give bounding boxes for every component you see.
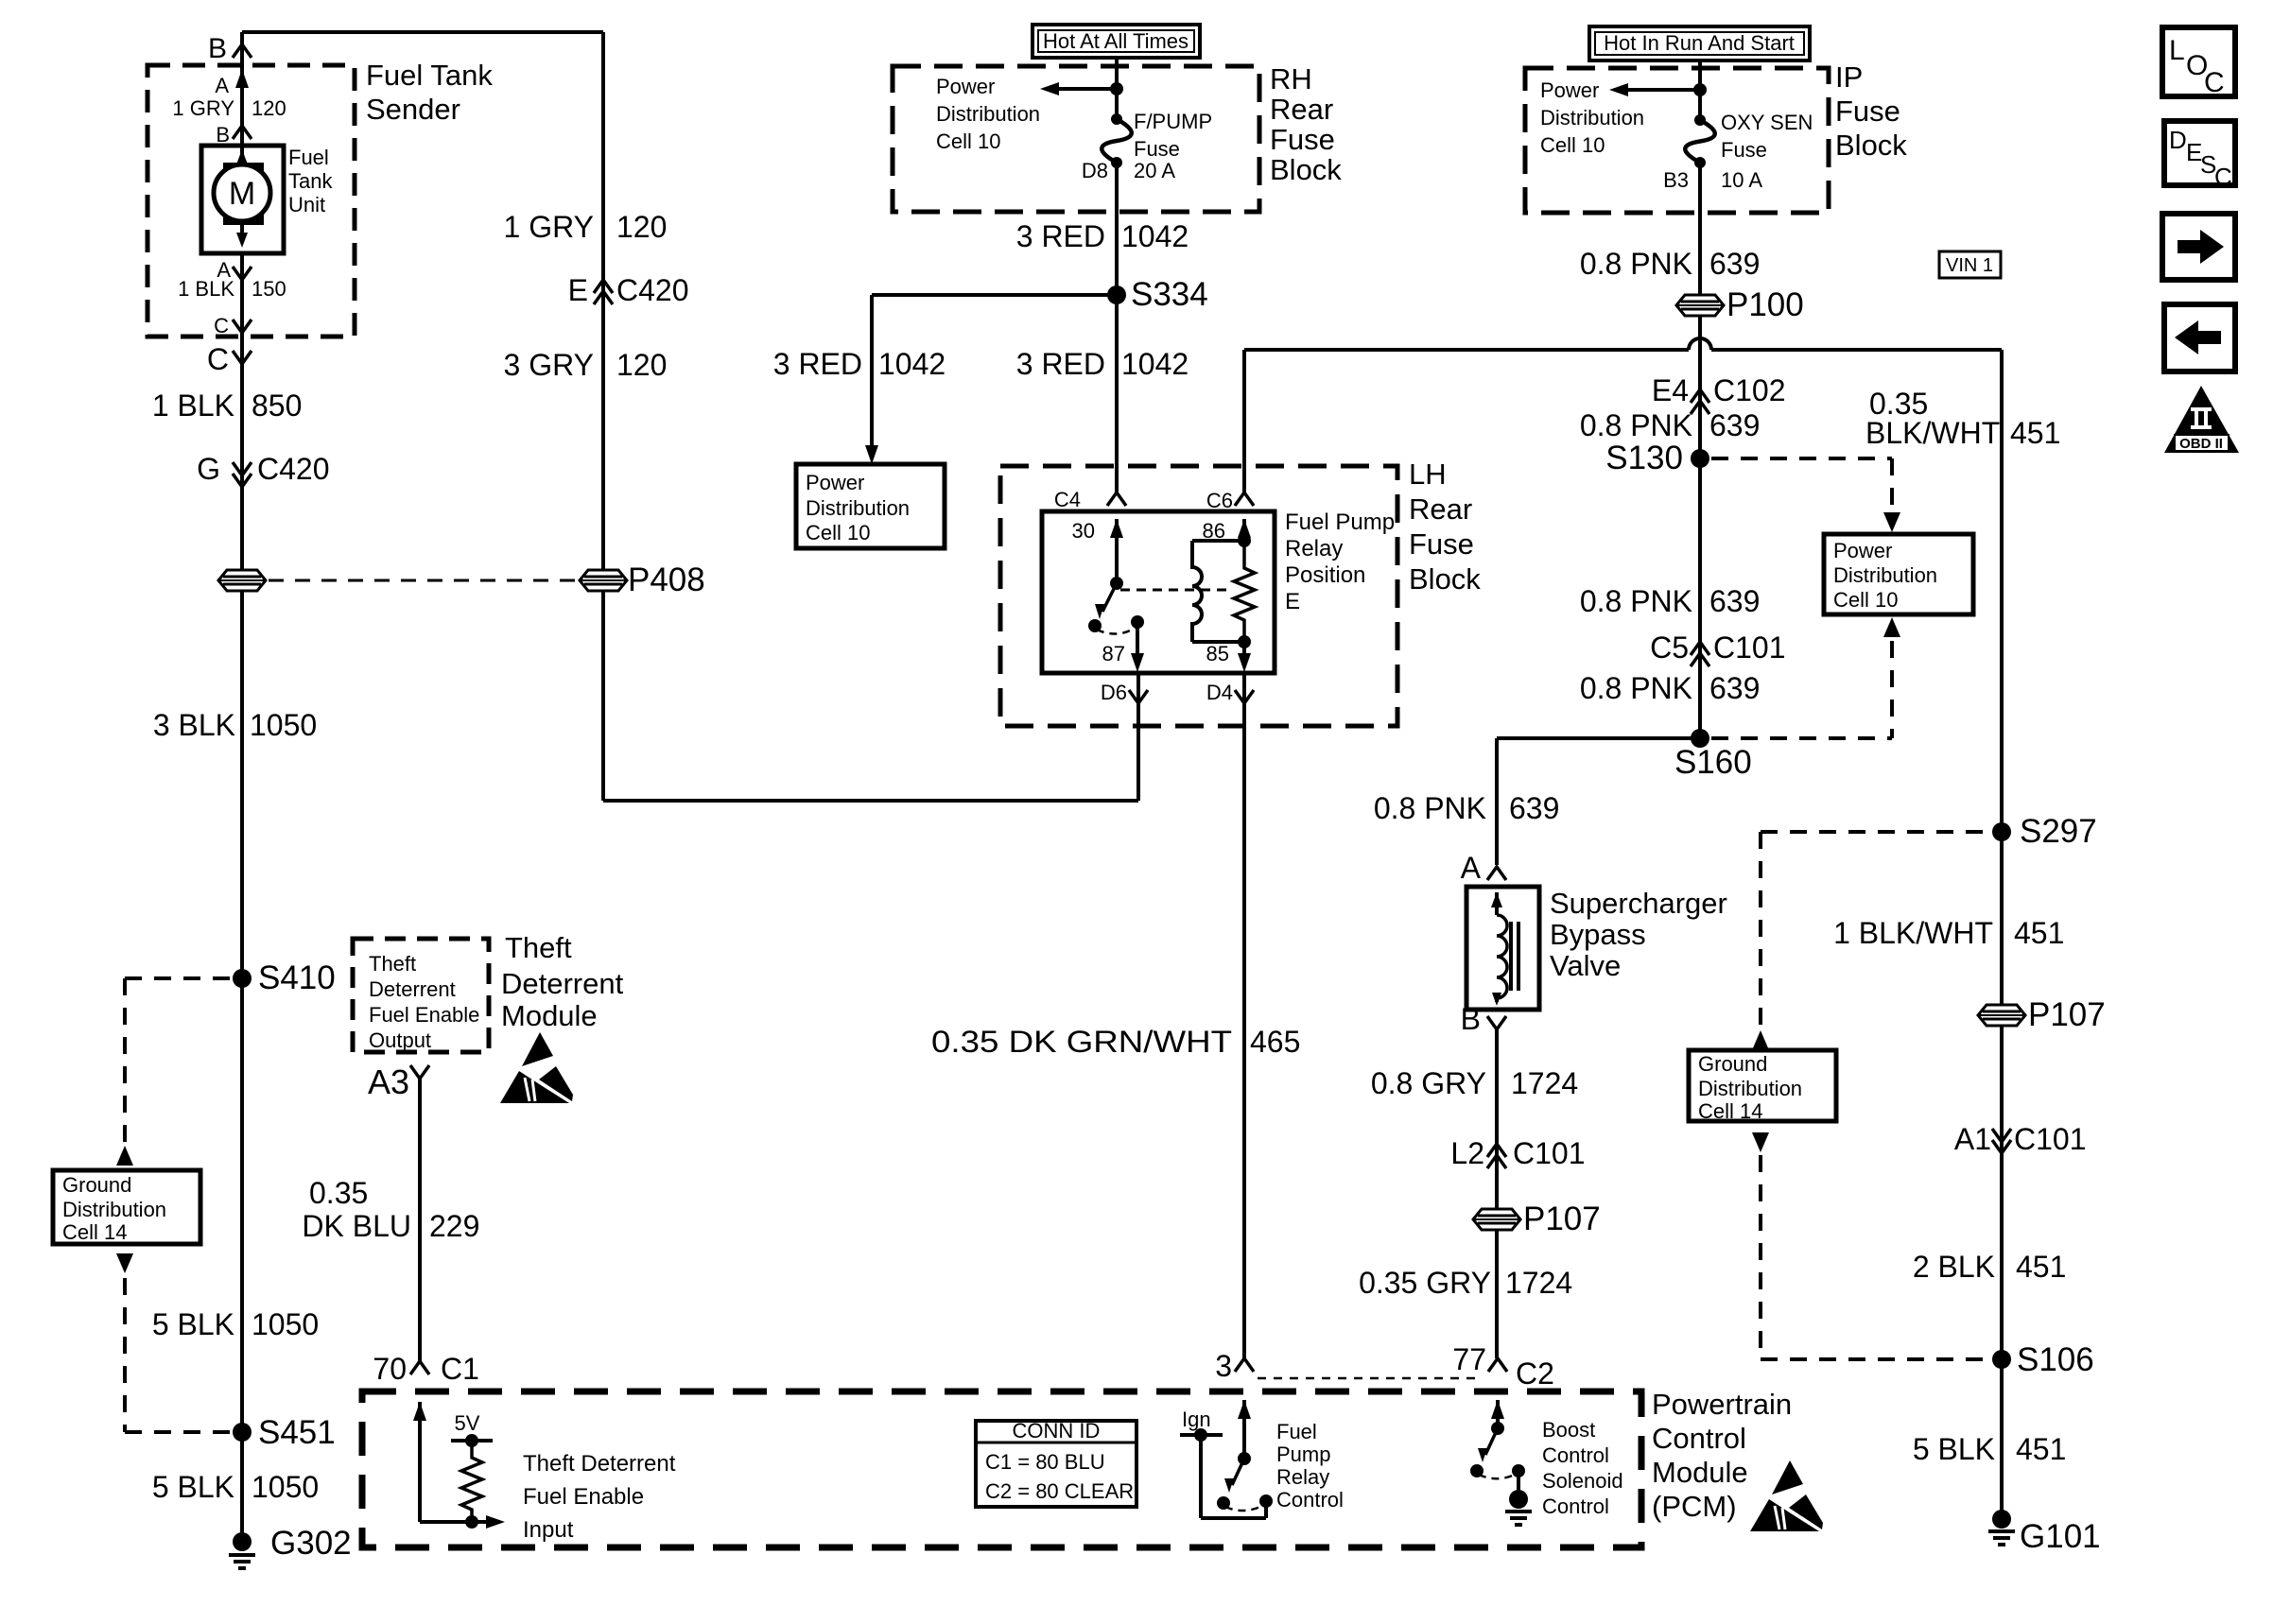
svg-text:639: 639	[1709, 408, 1760, 442]
svg-text:0.35: 0.35	[309, 1176, 368, 1210]
svg-text:0.35 DK GRN/WHT: 0.35 DK GRN/WHT	[931, 1025, 1232, 1059]
svg-text:G: G	[197, 452, 220, 486]
svg-text:C1: C1	[441, 1352, 479, 1386]
svg-text:1050: 1050	[252, 1470, 319, 1504]
svg-text:Deterrent: Deterrent	[501, 967, 624, 1000]
svg-text:1050: 1050	[250, 708, 317, 742]
svg-text:Distribution: Distribution	[1540, 106, 1644, 130]
svg-text:C101: C101	[2014, 1122, 2087, 1156]
svg-text:Fuel: Fuel	[288, 146, 329, 169]
svg-text:Position: Position	[1285, 562, 1365, 588]
svg-text:Hot At All Times: Hot At All Times	[1043, 29, 1189, 53]
svg-text:Rear: Rear	[1270, 93, 1333, 126]
svg-text:Tank: Tank	[288, 169, 333, 193]
svg-text:Bypass: Bypass	[1550, 918, 1646, 951]
svg-text:Cell 10: Cell 10	[806, 521, 870, 544]
svg-text:0.8 PNK: 0.8 PNK	[1374, 791, 1486, 825]
svg-text:OBD II: OBD II	[2179, 436, 2223, 452]
svg-text:Distribution: Distribution	[1698, 1077, 1802, 1100]
svg-text:S410: S410	[258, 959, 336, 996]
svg-text:Relay: Relay	[1276, 1465, 1329, 1489]
svg-text:Power: Power	[1540, 78, 1599, 102]
svg-text:L2: L2	[1450, 1136, 1484, 1170]
svg-text:C420: C420	[616, 273, 689, 307]
svg-text:M: M	[229, 176, 255, 212]
svg-text:D: D	[2169, 126, 2187, 154]
svg-text:D4: D4	[1206, 681, 1233, 704]
svg-text:C4: C4	[1054, 488, 1081, 511]
svg-text:Cell 10: Cell 10	[1833, 588, 1898, 612]
svg-text:1 GRY: 1 GRY	[504, 210, 594, 244]
svg-text:3 GRY: 3 GRY	[504, 348, 594, 382]
svg-text:Solenoid: Solenoid	[1542, 1469, 1623, 1493]
svg-text:0.8 GRY: 0.8 GRY	[1371, 1066, 1486, 1100]
svg-text:CONN ID: CONN ID	[1013, 1419, 1101, 1443]
svg-text:0.8 PNK: 0.8 PNK	[1580, 671, 1692, 705]
svg-text:C2 = 80 CLEAR: C2 = 80 CLEAR	[985, 1479, 1134, 1503]
svg-text:C6: C6	[1206, 489, 1233, 512]
svg-text:P100: P100	[1726, 286, 1804, 323]
svg-text:85: 85	[1206, 642, 1229, 665]
svg-text:Fuse: Fuse	[1409, 527, 1474, 561]
svg-text:Ground: Ground	[1698, 1052, 1767, 1076]
svg-text:D6: D6	[1101, 681, 1127, 704]
svg-text:120: 120	[616, 210, 667, 244]
svg-text:P107: P107	[1523, 1201, 1601, 1237]
svg-text:Power: Power	[1833, 539, 1892, 562]
svg-text:S160: S160	[1674, 744, 1752, 781]
svg-text:1 GRY: 1 GRY	[172, 96, 234, 120]
svg-text:G101: G101	[2020, 1518, 2101, 1555]
svg-text:1042: 1042	[878, 347, 946, 381]
svg-text:20 A: 20 A	[1134, 159, 1175, 182]
svg-text:Sender: Sender	[366, 93, 460, 126]
svg-text:639: 639	[1509, 791, 1559, 825]
svg-text:3 RED: 3 RED	[1016, 347, 1105, 381]
svg-text:0.8 PNK: 0.8 PNK	[1580, 584, 1692, 618]
svg-text:Block: Block	[1270, 153, 1342, 186]
svg-text:A1: A1	[1954, 1122, 1991, 1156]
svg-text:451: 451	[2010, 416, 2060, 450]
svg-text:86: 86	[1203, 519, 1225, 543]
svg-text:Fuel Enable: Fuel Enable	[369, 1003, 479, 1027]
svg-text:77: 77	[1452, 1342, 1486, 1376]
svg-text:639: 639	[1709, 584, 1760, 618]
svg-text:850: 850	[252, 389, 302, 423]
svg-text:1 BLK: 1 BLK	[178, 277, 234, 301]
svg-text:RH: RH	[1270, 62, 1312, 95]
svg-text:Block: Block	[1835, 129, 1907, 162]
svg-text:C420: C420	[257, 452, 330, 486]
svg-text:Cell 14: Cell 14	[62, 1220, 127, 1244]
svg-text:D8: D8	[1082, 159, 1108, 182]
svg-text:5 BLK: 5 BLK	[152, 1307, 234, 1341]
svg-text:E: E	[1285, 589, 1300, 614]
svg-text:Pump: Pump	[1276, 1443, 1330, 1466]
svg-text:A: A	[1461, 851, 1482, 885]
svg-text:1050: 1050	[252, 1307, 319, 1341]
svg-text:Block: Block	[1409, 562, 1481, 596]
svg-text:0.8 PNK: 0.8 PNK	[1580, 408, 1692, 442]
svg-text:120: 120	[252, 96, 286, 120]
svg-text:3 RED: 3 RED	[1016, 219, 1105, 253]
svg-text:1 BLK/WHT: 1 BLK/WHT	[1833, 916, 1993, 950]
svg-text:Cell 14: Cell 14	[1698, 1099, 1762, 1123]
svg-text:F/PUMP: F/PUMP	[1134, 110, 1212, 133]
svg-text:C101: C101	[1713, 631, 1786, 665]
svg-text:639: 639	[1709, 247, 1760, 281]
svg-text:A: A	[215, 74, 229, 97]
svg-text:Distribution: Distribution	[936, 102, 1040, 126]
svg-text:120: 120	[616, 348, 667, 382]
svg-text:Theft: Theft	[369, 952, 416, 976]
svg-text:A3: A3	[368, 1063, 409, 1101]
svg-text:C1 = 80 BLU: C1 = 80 BLU	[985, 1450, 1105, 1474]
svg-text:Power: Power	[806, 471, 864, 494]
svg-text:S451: S451	[258, 1414, 336, 1451]
svg-text:Boost: Boost	[1542, 1418, 1595, 1442]
svg-text:639: 639	[1709, 671, 1760, 705]
svg-text:B: B	[1461, 1002, 1481, 1036]
svg-text:2 BLK: 2 BLK	[1913, 1250, 1995, 1284]
svg-text:Fuse: Fuse	[1134, 137, 1180, 161]
svg-text:Control: Control	[1542, 1494, 1609, 1518]
svg-text:3: 3	[1215, 1349, 1232, 1383]
svg-text:150: 150	[252, 277, 286, 301]
svg-text:Theft: Theft	[505, 931, 572, 964]
svg-text:Distribution: Distribution	[1833, 563, 1937, 587]
svg-text:Hot In Run And Start: Hot In Run And Start	[1604, 31, 1795, 55]
svg-text:1042: 1042	[1121, 347, 1189, 381]
svg-text:Module: Module	[501, 999, 598, 1032]
svg-text:Control: Control	[1542, 1443, 1609, 1467]
svg-text:1 BLK: 1 BLK	[152, 389, 234, 423]
svg-text:E4: E4	[1652, 373, 1689, 407]
svg-text:S130: S130	[1605, 440, 1683, 476]
svg-text:C5: C5	[1650, 631, 1689, 665]
svg-text:Valve: Valve	[1550, 949, 1621, 982]
svg-text:87: 87	[1102, 642, 1125, 665]
svg-text:(PCM): (PCM)	[1652, 1490, 1737, 1523]
svg-text:B3: B3	[1663, 168, 1689, 192]
svg-text:G302: G302	[270, 1525, 352, 1562]
svg-text:3 BLK: 3 BLK	[153, 708, 235, 742]
svg-text:5 BLK: 5 BLK	[1913, 1432, 1995, 1466]
svg-text:Rear: Rear	[1409, 492, 1472, 526]
svg-text:IP: IP	[1835, 60, 1863, 94]
svg-text:5 BLK: 5 BLK	[152, 1470, 234, 1504]
svg-text:Control: Control	[1652, 1422, 1746, 1455]
svg-text:451: 451	[2016, 1250, 2066, 1284]
svg-text:Distribution: Distribution	[806, 496, 910, 520]
svg-text:Fuel Tank: Fuel Tank	[366, 59, 493, 92]
svg-text:P408: P408	[628, 561, 705, 598]
svg-text:OXY SEN: OXY SEN	[1721, 111, 1813, 134]
svg-text:S334: S334	[1131, 276, 1208, 313]
svg-text:C: C	[207, 342, 229, 376]
svg-text:Fuse: Fuse	[1721, 138, 1767, 162]
svg-text:Fuel: Fuel	[1276, 1420, 1317, 1443]
svg-text:L: L	[2169, 35, 2185, 66]
svg-text:451: 451	[2014, 916, 2064, 950]
svg-text:Ign: Ign	[1182, 1408, 1211, 1431]
svg-text:S297: S297	[2020, 813, 2097, 850]
svg-text:Control: Control	[1276, 1488, 1344, 1512]
svg-text:B: B	[216, 123, 230, 147]
svg-text:Supercharger: Supercharger	[1550, 887, 1727, 920]
svg-text:Powertrain: Powertrain	[1652, 1388, 1792, 1421]
svg-text:0.8 PNK: 0.8 PNK	[1580, 247, 1692, 281]
svg-text:B: B	[208, 33, 227, 64]
svg-text:E: E	[568, 273, 588, 307]
svg-text:Power: Power	[936, 75, 995, 98]
svg-text:Cell 10: Cell 10	[936, 130, 1000, 153]
svg-text:Ground: Ground	[62, 1173, 131, 1197]
svg-text:5V: 5V	[455, 1411, 480, 1435]
svg-text:C101: C101	[1513, 1136, 1586, 1170]
svg-text:LH: LH	[1409, 458, 1447, 491]
svg-text:VIN 1: VIN 1	[1946, 255, 1993, 276]
svg-text:1724: 1724	[1511, 1066, 1578, 1100]
svg-text:Fuse: Fuse	[1270, 123, 1335, 156]
svg-text:Fuel Enable: Fuel Enable	[523, 1484, 644, 1510]
svg-text:Output: Output	[369, 1028, 431, 1052]
svg-text:C102: C102	[1713, 373, 1786, 407]
svg-text:C: C	[2204, 67, 2225, 98]
svg-text:10 A: 10 A	[1721, 168, 1762, 192]
svg-text:30: 30	[1072, 519, 1095, 543]
svg-text:Unit: Unit	[288, 193, 325, 216]
svg-text:BLK/WHT: BLK/WHT	[1865, 416, 2000, 450]
svg-text:70: 70	[373, 1352, 407, 1386]
svg-text:C2: C2	[1516, 1356, 1554, 1391]
svg-text:P107: P107	[2028, 996, 2106, 1033]
svg-text:Relay: Relay	[1285, 536, 1343, 561]
svg-text:0.35 GRY: 0.35 GRY	[1359, 1266, 1491, 1300]
svg-text:Cell 10: Cell 10	[1540, 133, 1605, 157]
svg-text:C: C	[214, 314, 229, 337]
svg-text:1042: 1042	[1121, 219, 1189, 253]
svg-text:229: 229	[429, 1209, 479, 1243]
svg-text:Theft Deterrent: Theft Deterrent	[523, 1451, 676, 1477]
svg-text:Input: Input	[523, 1517, 574, 1543]
svg-text:Distribution: Distribution	[62, 1198, 166, 1221]
svg-text:Fuse: Fuse	[1835, 95, 1900, 128]
svg-text:DK BLU: DK BLU	[302, 1209, 411, 1243]
svg-text:465: 465	[1250, 1025, 1300, 1059]
svg-text:1724: 1724	[1505, 1266, 1572, 1300]
svg-text:451: 451	[2016, 1432, 2066, 1466]
svg-text:C: C	[2214, 163, 2232, 191]
svg-text:3 RED: 3 RED	[773, 347, 862, 381]
svg-text:Fuel Pump: Fuel Pump	[1285, 510, 1395, 535]
svg-text:Deterrent: Deterrent	[369, 977, 456, 1001]
svg-text:S106: S106	[2017, 1341, 2094, 1378]
svg-text:Module: Module	[1652, 1456, 1748, 1489]
